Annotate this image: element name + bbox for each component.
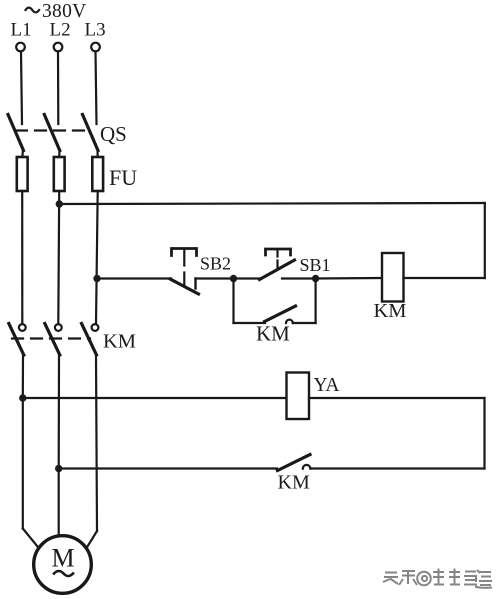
svg-text:M: M [52, 544, 75, 573]
contact KM (bottom) fixed contact circle [303, 465, 311, 469]
wire latch up to junction [315, 279, 317, 324]
wire right vertical (control) [484, 203, 486, 278]
self-latch branch: wire down from junction [232, 279, 234, 324]
junction SB2-SB1 [230, 275, 237, 282]
wire SB1 to junction [282, 277, 316, 279]
wire L3 KM to motor [96, 355, 97, 531]
svg-text:L2: L2 [50, 20, 71, 41]
switch QS pole 1 blade [8, 115, 24, 151]
contactor KM main contact pole 2 [45, 324, 62, 356]
fuse FU 1 [17, 157, 28, 191]
svg-text:YA: YA [314, 375, 340, 396]
wire L2 junction to KM contact [59, 467, 277, 469]
contactor KM main contact pole 1 [9, 324, 26, 356]
svg-text:L1: L1 [11, 20, 32, 41]
svg-text:SB2: SB2 [200, 254, 231, 274]
wire L1 top [21, 52, 22, 125]
junction on L2 (bottom branch) [55, 465, 62, 472]
wire QS to fuse L1 [21, 150, 24, 158]
svg-text:KM: KM [103, 331, 136, 353]
wire QS to fuse L3 [96, 150, 98, 158]
wire L2 KM to junction [58, 355, 60, 469]
contactor KM linkage (dashed) [12, 337, 90, 339]
junction on L3 control tap [93, 275, 100, 282]
terminal L3 [91, 43, 100, 52]
motor tilde [54, 571, 73, 576]
wire L3 fuse to KM contact [96, 191, 98, 324]
wire L1 junction to YA coil [23, 397, 287, 399]
pushbutton SB2 (NC) [171, 249, 199, 295]
fuse FU 3 [92, 157, 103, 191]
wire L2 down to motor [58, 469, 60, 537]
wire QS to fuse L2 [58, 150, 60, 158]
contact KM (bottom) blade [278, 455, 311, 471]
motor M circle [34, 536, 92, 594]
wire L3 slant to motor [87, 531, 98, 548]
wire SB2 to junction [196, 277, 234, 279]
svg-text:QS: QS [100, 122, 127, 146]
switch QS linkage (dashed) [16, 129, 92, 131]
bus wire L2 to right side [59, 203, 485, 204]
svg-text:KM: KM [256, 322, 290, 346]
wire L3 top [96, 52, 97, 125]
svg-text:FU: FU [109, 165, 137, 190]
svg-text:L3: L3 [85, 20, 106, 41]
svg-text:SB1: SB1 [300, 255, 331, 275]
junction SB1 right [312, 275, 319, 282]
coil YA [287, 373, 310, 420]
terminal L2 [54, 43, 63, 52]
contact KM self-latch blade [265, 306, 296, 322]
wire junction to SB1 [234, 277, 261, 279]
switch QS pole 3 blade [83, 115, 99, 151]
wire L1 KM to motor junction [22, 355, 24, 398]
wire L1 fuse to KM contact [21, 191, 23, 324]
wire L2 fuse to KM contact [57, 191, 60, 324]
junction on L2 [56, 200, 63, 207]
wire YA to right vertical [309, 397, 485, 399]
label ~380V [26, 1, 87, 22]
wire L2 top [57, 52, 59, 125]
wire right vertical (YA branch) [483, 398, 485, 469]
wire L1 slant to motor [23, 529, 39, 549]
junction on L1 (YA branch) [19, 394, 26, 401]
wire bottom right of latch [293, 322, 316, 324]
contact KM self-latch fixed contact arc [286, 320, 293, 323]
wire junction to KM coil [316, 277, 382, 280]
wire bottom left of latch [234, 322, 266, 324]
svg-text:KM: KM [374, 300, 407, 322]
wire L3 to SB2 [97, 277, 171, 279]
wire KM contact to right vertical [311, 467, 485, 469]
pushbutton SB1 (NO) [260, 249, 295, 280]
contactor KM main contact pole 3 [82, 324, 99, 356]
fuse FU 2 [54, 157, 65, 191]
svg-text:KM: KM [278, 472, 310, 494]
terminal L1 [16, 43, 25, 52]
coil KM [382, 253, 404, 302]
watermark 头条@机械与设计 (embossed) [383, 569, 493, 589]
switch QS pole 2 blade [44, 115, 60, 151]
wire L1 down to motor [22, 398, 24, 529]
wire KM coil to right vertical [404, 277, 485, 279]
